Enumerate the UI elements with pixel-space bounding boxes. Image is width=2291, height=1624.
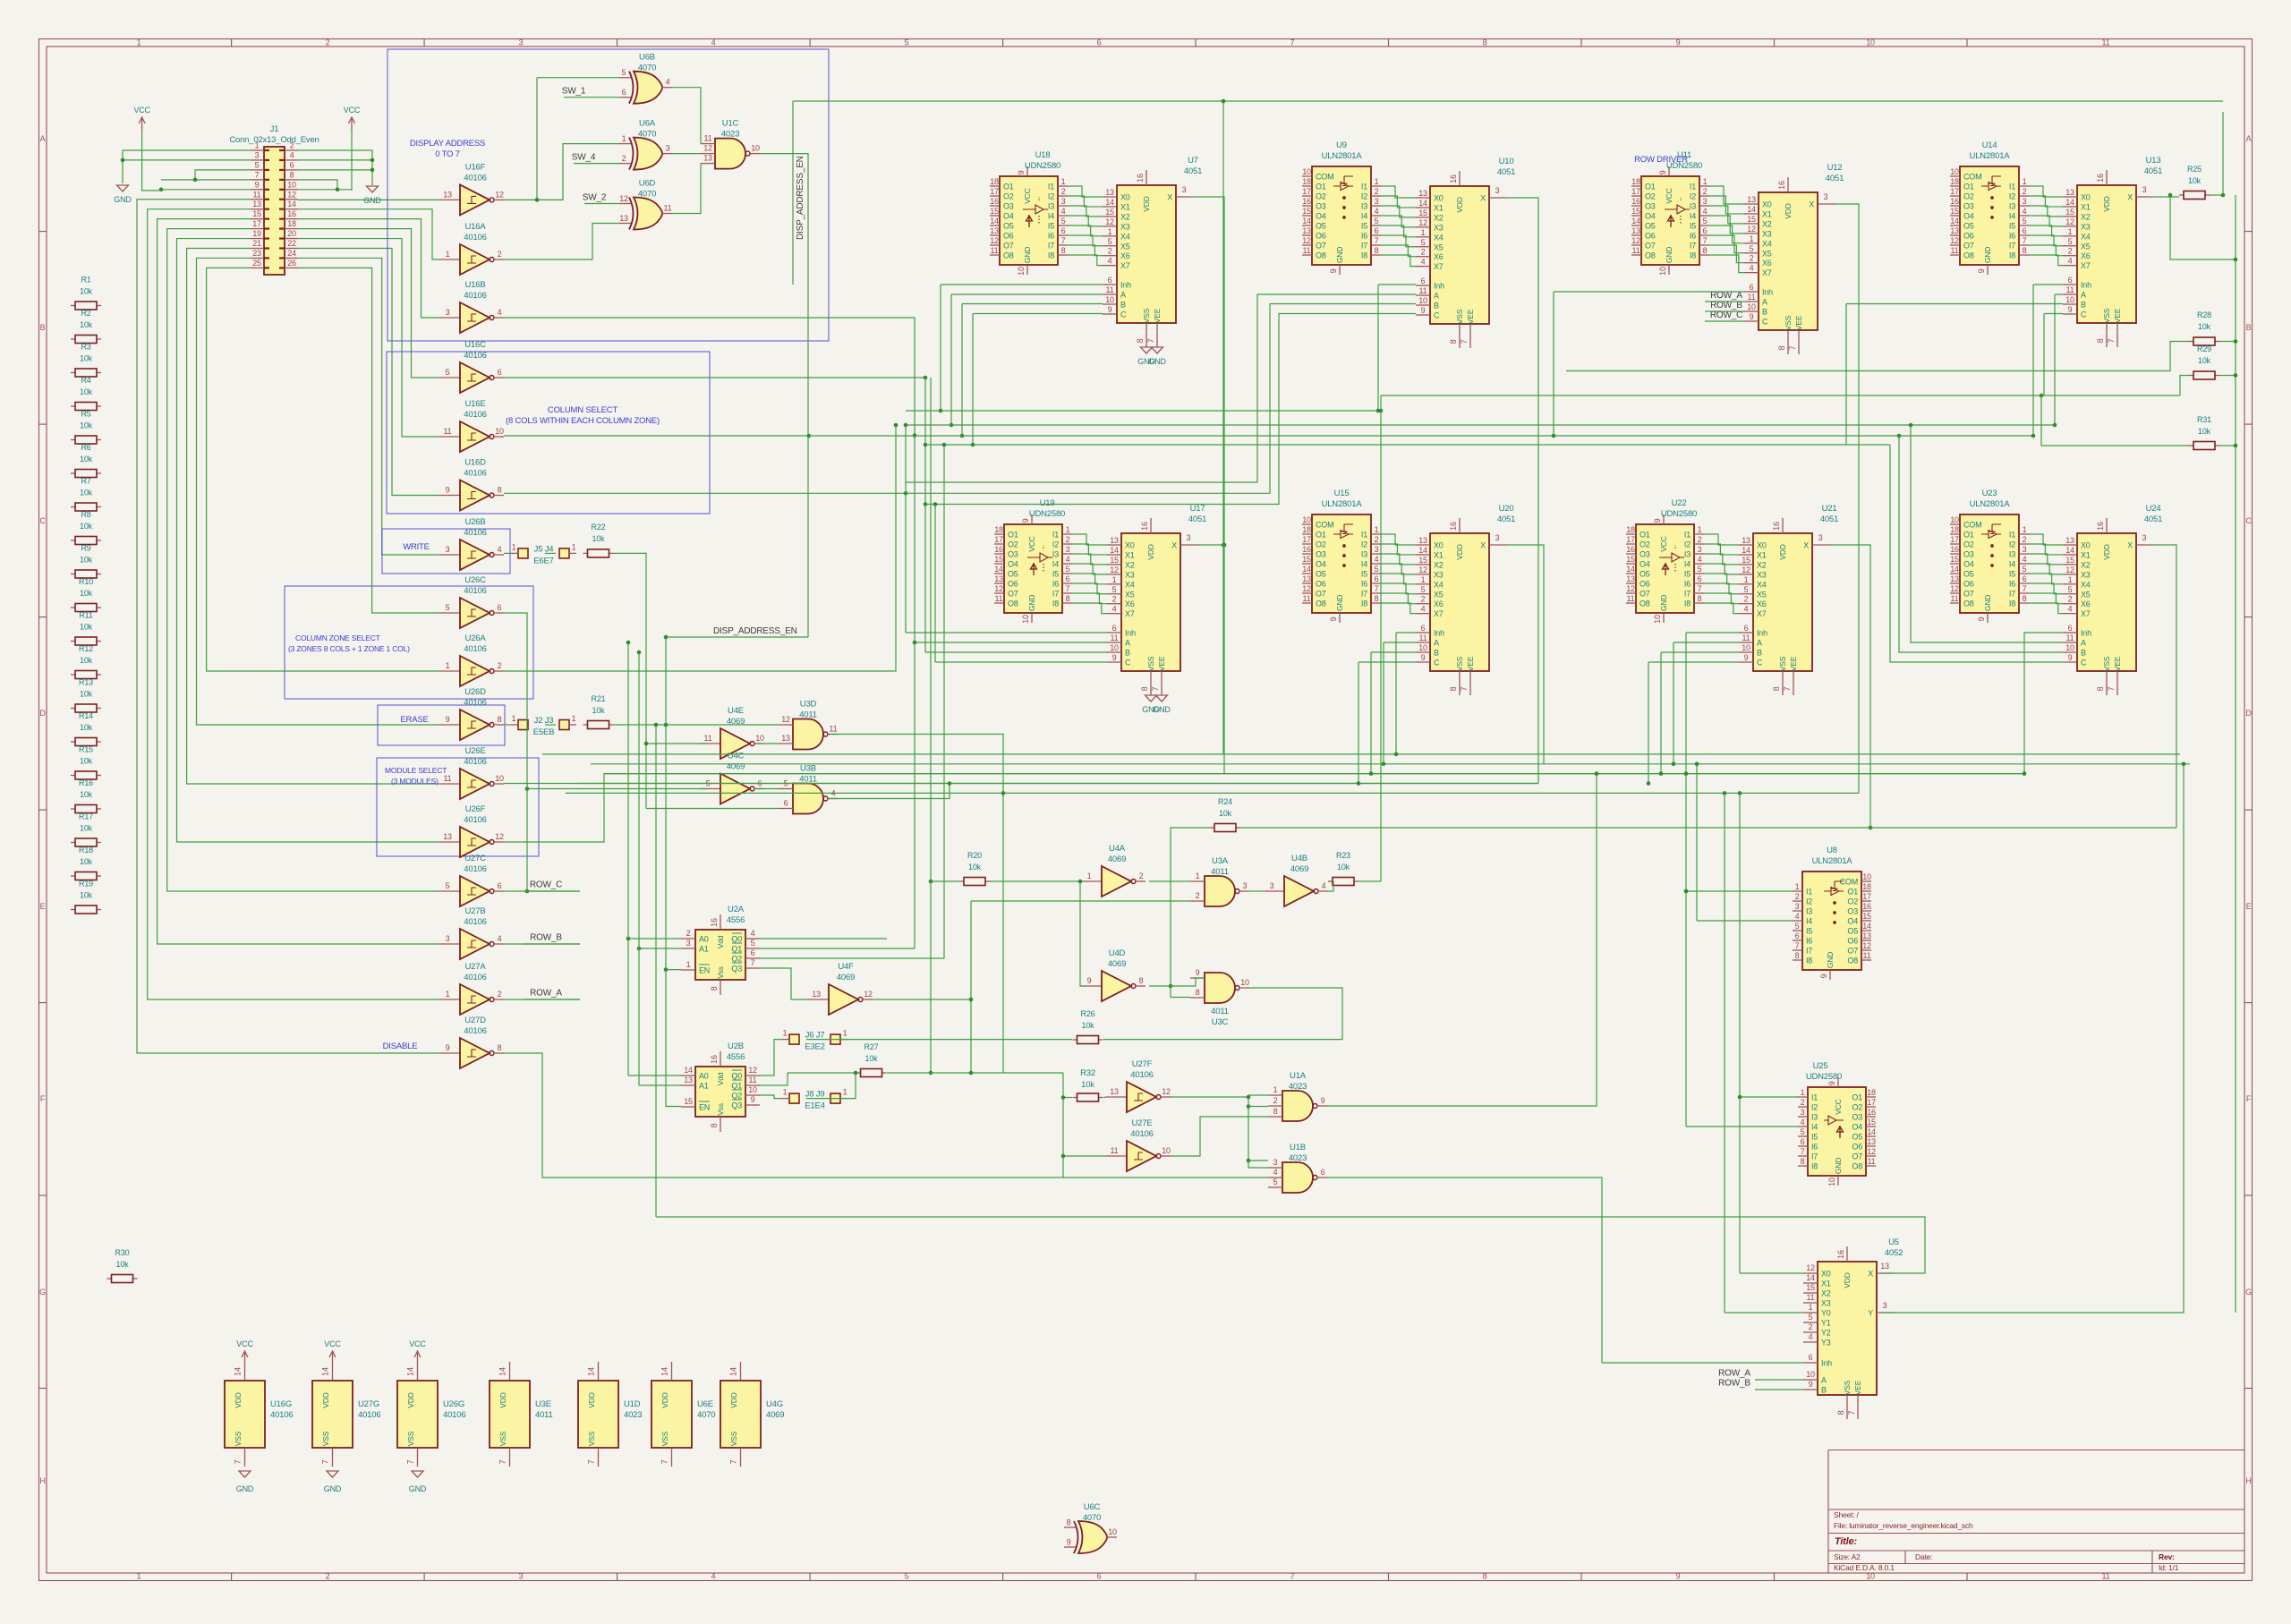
svg-text:X: X bbox=[1167, 193, 1172, 202]
svg-text:1: 1 bbox=[1108, 227, 1112, 236]
svg-text:X2: X2 bbox=[2081, 212, 2091, 221]
svg-text:ROW_B: ROW_B bbox=[1710, 301, 1742, 310]
wire zigzag bbox=[1704, 564, 1739, 574]
J1 pin 18 bbox=[279, 219, 298, 229]
svg-text:10: 10 bbox=[1866, 38, 1875, 47]
svg-text:O2: O2 bbox=[1316, 192, 1326, 201]
svg-text:X3: X3 bbox=[1821, 1299, 1831, 1308]
svg-text:9: 9 bbox=[1021, 518, 1030, 523]
svg-text:8: 8 bbox=[498, 486, 502, 495]
svg-text:O5: O5 bbox=[1003, 222, 1014, 231]
svg-text:DISPLAY ADDRESS: DISPLAY ADDRESS bbox=[410, 139, 485, 149]
svg-text:VDD: VDD bbox=[1843, 1272, 1852, 1288]
svg-text:10k: 10k bbox=[80, 489, 93, 497]
svg-text:U1B: U1B bbox=[1290, 1143, 1306, 1152]
wire pin8 jog right bbox=[298, 180, 337, 190]
wire zigzag bbox=[1381, 235, 1416, 247]
svg-text:10: 10 bbox=[1950, 515, 1959, 524]
svg-text:13: 13 bbox=[2065, 188, 2074, 197]
J1 pin 19 bbox=[251, 229, 269, 239]
svg-text:18: 18 bbox=[1950, 177, 1959, 186]
svg-text:4: 4 bbox=[498, 934, 502, 943]
wire v1560 bbox=[1395, 633, 1397, 754]
svg-text:11: 11 bbox=[1303, 246, 1311, 255]
svg-text:X2: X2 bbox=[1757, 560, 1767, 569]
svg-text:X0: X0 bbox=[1125, 541, 1135, 550]
svg-text:13: 13 bbox=[1867, 1137, 1876, 1146]
svg-text:O5: O5 bbox=[1316, 222, 1326, 231]
svg-text:5: 5 bbox=[1273, 1178, 1278, 1186]
power unit U27G bbox=[312, 1339, 380, 1493]
svg-text:10k: 10k bbox=[1082, 1021, 1095, 1030]
svg-text:8: 8 bbox=[1795, 951, 1800, 960]
svg-text:C: C bbox=[1762, 318, 1768, 327]
svg-text:8: 8 bbox=[1483, 38, 1487, 47]
svg-text:11: 11 bbox=[1748, 293, 1756, 302]
svg-text:12: 12 bbox=[1867, 1147, 1876, 1156]
svg-text:R19: R19 bbox=[79, 880, 93, 889]
power unit U16G bbox=[225, 1339, 293, 1493]
wire v2296 bbox=[2054, 294, 2056, 425]
svg-text:6: 6 bbox=[1108, 276, 1112, 285]
multiplexer U10 4051 bbox=[1416, 157, 1515, 348]
svg-text:O5: O5 bbox=[1963, 570, 1974, 579]
inverter U16B bbox=[439, 280, 504, 333]
junction bbox=[929, 1071, 933, 1076]
junction bbox=[2053, 423, 2057, 428]
svg-text:U19: U19 bbox=[1040, 498, 1055, 508]
svg-text:11: 11 bbox=[1951, 246, 1959, 255]
svg-text:6: 6 bbox=[751, 948, 755, 957]
wire J1 pin 21 bus bbox=[187, 249, 439, 785]
svg-text:ROW_C: ROW_C bbox=[530, 880, 562, 890]
svg-text:1: 1 bbox=[1112, 575, 1117, 584]
junction bbox=[2182, 762, 2186, 767]
J1 pin 22 bbox=[279, 239, 298, 249]
svg-text:10: 10 bbox=[1658, 267, 1667, 276]
wire U1A.2 bbox=[1248, 1106, 1268, 1108]
svg-text:10k: 10k bbox=[2188, 176, 2202, 185]
svg-text:VSS: VSS bbox=[1455, 656, 1464, 671]
svg-text:8: 8 bbox=[290, 170, 294, 179]
svg-text:1: 1 bbox=[686, 960, 691, 969]
svg-text:Title:: Title: bbox=[1835, 1536, 1857, 1547]
wire zigzag bbox=[1068, 235, 1103, 246]
svg-text:1: 1 bbox=[512, 714, 516, 723]
wire v1540 bbox=[1377, 285, 1379, 411]
wire zigzag bbox=[1068, 186, 1103, 197]
svg-text:Q0: Q0 bbox=[731, 1072, 742, 1081]
wire zigzag bbox=[1068, 245, 1103, 256]
svg-text:J6 J7: J6 J7 bbox=[805, 1031, 825, 1041]
svg-text:4051: 4051 bbox=[2144, 514, 2162, 524]
wire zigzag bbox=[1381, 186, 1416, 198]
wire U12 ctl Inh bbox=[1554, 291, 1744, 293]
svg-text:O5: O5 bbox=[1847, 927, 1858, 936]
annotation box MODULE SELECT bbox=[377, 758, 539, 856]
svg-text:O5: O5 bbox=[1639, 570, 1650, 579]
svg-text:4069: 4069 bbox=[766, 1410, 784, 1420]
svg-text:SW_4: SW_4 bbox=[572, 153, 596, 163]
svg-text:VSS: VSS bbox=[1778, 656, 1787, 671]
svg-text:13: 13 bbox=[990, 226, 999, 235]
svg-text:7: 7 bbox=[587, 1459, 596, 1464]
J1 pin 3 bbox=[251, 150, 269, 160]
svg-text:U24: U24 bbox=[2146, 504, 2161, 514]
svg-text:O7: O7 bbox=[1963, 590, 1974, 599]
svg-text:5: 5 bbox=[446, 368, 450, 377]
svg-text:E: E bbox=[2246, 902, 2252, 911]
svg-text:8: 8 bbox=[1772, 686, 1781, 691]
svg-text:4: 4 bbox=[2023, 555, 2027, 564]
power VCC bbox=[139, 117, 145, 131]
svg-text:U3E: U3E bbox=[535, 1399, 551, 1409]
svg-text:2: 2 bbox=[1744, 595, 1749, 604]
svg-text:X4: X4 bbox=[1120, 232, 1130, 241]
svg-text:VDD: VDD bbox=[1778, 544, 1787, 559]
wire zigzag bbox=[1072, 544, 1107, 555]
svg-text:16: 16 bbox=[1302, 545, 1311, 554]
svg-text:2: 2 bbox=[1698, 535, 1702, 544]
svg-text:1: 1 bbox=[843, 1088, 847, 1097]
wire v1063 bbox=[950, 294, 952, 425]
junction bbox=[933, 502, 938, 506]
wire U12 ctl B bbox=[1705, 310, 1744, 312]
wire v1736 bbox=[1553, 292, 1554, 436]
svg-text:40106: 40106 bbox=[270, 1410, 293, 1420]
svg-text:17: 17 bbox=[1626, 535, 1635, 544]
svg-text:11: 11 bbox=[253, 190, 261, 199]
power GND bbox=[367, 186, 379, 192]
svg-text:4: 4 bbox=[498, 308, 502, 317]
svg-text:Inh: Inh bbox=[1434, 282, 1444, 291]
svg-text:8: 8 bbox=[1449, 339, 1458, 344]
svg-text:15: 15 bbox=[252, 209, 261, 218]
resistor R11 bbox=[71, 611, 101, 646]
svg-text:14: 14 bbox=[1302, 217, 1311, 225]
svg-text:15: 15 bbox=[1418, 556, 1427, 565]
svg-text:O1: O1 bbox=[1008, 531, 1018, 540]
svg-text:21: 21 bbox=[252, 239, 261, 248]
svg-text:X6: X6 bbox=[1762, 259, 1772, 268]
wire U2A Q0 bbox=[760, 938, 887, 940]
svg-text:F: F bbox=[40, 1094, 46, 1103]
inverter U4B bbox=[1263, 854, 1328, 906]
svg-text:3: 3 bbox=[1495, 186, 1500, 195]
svg-text:O1: O1 bbox=[1003, 183, 1014, 191]
svg-text:16: 16 bbox=[1950, 545, 1959, 554]
svg-text:I4: I4 bbox=[1811, 1123, 1818, 1132]
svg-text:1: 1 bbox=[1809, 1303, 1813, 1312]
svg-text:8: 8 bbox=[2096, 686, 2105, 691]
svg-text:VDD: VDD bbox=[1455, 197, 1464, 212]
svg-text:O3: O3 bbox=[1316, 550, 1326, 559]
wire U16D out bbox=[504, 304, 1270, 494]
svg-text:10: 10 bbox=[1302, 515, 1311, 524]
resistor R28 bbox=[2189, 310, 2219, 345]
svg-text:2: 2 bbox=[1066, 535, 1070, 544]
junction bbox=[913, 641, 917, 645]
junction bbox=[2031, 434, 2036, 438]
svg-text:O1: O1 bbox=[1645, 183, 1656, 191]
inverter U16D bbox=[439, 458, 504, 511]
wire ROW_A wire U5 bbox=[1755, 1379, 1803, 1381]
inverter U26B bbox=[439, 517, 504, 570]
wire U1B.3 from v1395 bbox=[1248, 1161, 1268, 1168]
svg-text:O2: O2 bbox=[1963, 192, 1974, 201]
wire J1 pin 24 bus bbox=[298, 258, 439, 555]
wire U13 ctl B bbox=[1846, 303, 2063, 305]
svg-text:O4: O4 bbox=[1008, 560, 1018, 569]
svg-text:R11: R11 bbox=[79, 611, 92, 620]
wire J1 pin 18 bus bbox=[298, 229, 439, 378]
svg-text:4: 4 bbox=[1801, 1118, 1805, 1127]
svg-text:I3: I3 bbox=[1361, 202, 1367, 211]
svg-text:1: 1 bbox=[1066, 525, 1070, 534]
wire J1 pin 16 bus bbox=[298, 219, 439, 318]
svg-text:5: 5 bbox=[1809, 1313, 1813, 1322]
svg-text:4: 4 bbox=[2023, 207, 2027, 216]
junction bbox=[1647, 781, 1651, 786]
svg-text:C: C bbox=[2081, 659, 2087, 667]
resistor R3 bbox=[71, 343, 101, 378]
svg-text:2: 2 bbox=[498, 250, 502, 259]
svg-text:3: 3 bbox=[1818, 533, 1823, 542]
wire zigzag bbox=[1072, 583, 1107, 594]
svg-text:O1: O1 bbox=[1847, 888, 1858, 897]
svg-text:4051: 4051 bbox=[1497, 167, 1515, 177]
svg-text:X7: X7 bbox=[1120, 261, 1130, 270]
svg-text:VSS: VSS bbox=[1142, 308, 1151, 323]
resistor R15 bbox=[71, 745, 101, 780]
junction bbox=[637, 650, 642, 655]
svg-text:X1: X1 bbox=[1434, 203, 1444, 212]
svg-text:2: 2 bbox=[290, 141, 294, 150]
svg-text:20: 20 bbox=[287, 229, 296, 238]
wire U25.I1 feeder bbox=[1740, 1096, 1798, 1098]
wire U24 ctl B bbox=[1899, 436, 2063, 652]
svg-text:O7: O7 bbox=[1008, 590, 1018, 599]
wire U20.X out bbox=[1507, 545, 1544, 764]
svg-text:11: 11 bbox=[1951, 594, 1959, 603]
svg-text:UDN2580: UDN2580 bbox=[1025, 161, 1060, 171]
svg-text:COM: COM bbox=[1963, 521, 1981, 530]
wire R32 to U27F bbox=[1103, 1097, 1105, 1099]
wire J4 to R22 bbox=[545, 552, 556, 554]
junction bbox=[894, 423, 899, 428]
svg-text:13: 13 bbox=[619, 214, 628, 223]
svg-text:(3 MODULES): (3 MODULES) bbox=[391, 777, 439, 786]
svg-text:ULN2801A: ULN2801A bbox=[1812, 856, 1853, 866]
svg-text:O3: O3 bbox=[1847, 907, 1858, 916]
svg-text:17: 17 bbox=[1631, 187, 1640, 196]
svg-text:6: 6 bbox=[784, 799, 788, 808]
svg-text:9: 9 bbox=[1977, 616, 1986, 621]
wire v1034 bbox=[924, 378, 926, 652]
svg-text:A0: A0 bbox=[699, 1072, 709, 1081]
svg-text:9: 9 bbox=[1750, 312, 1754, 321]
junction bbox=[1595, 771, 1599, 776]
svg-text:8: 8 bbox=[2023, 594, 2027, 603]
svg-text:VEE: VEE bbox=[1153, 308, 1162, 323]
wire zigzag bbox=[1072, 564, 1107, 574]
svg-text:1: 1 bbox=[572, 542, 576, 551]
wire top distribution h113 bbox=[793, 100, 2223, 102]
svg-text:10: 10 bbox=[1827, 1178, 1836, 1186]
svg-text:U27B: U27B bbox=[465, 906, 486, 916]
svg-text:2: 2 bbox=[2068, 595, 2073, 604]
svg-text:Y2: Y2 bbox=[1821, 1329, 1831, 1338]
svg-text:3: 3 bbox=[666, 144, 670, 153]
svg-text:10: 10 bbox=[1950, 167, 1959, 176]
svg-text:8: 8 bbox=[1140, 686, 1149, 691]
svg-text:R13: R13 bbox=[79, 678, 93, 687]
svg-text:11: 11 bbox=[995, 594, 1003, 603]
svg-text:2: 2 bbox=[1273, 1096, 1278, 1105]
svg-text:H: H bbox=[39, 1476, 45, 1485]
junction bbox=[854, 1071, 858, 1076]
svg-text:O6: O6 bbox=[1963, 580, 1974, 589]
svg-text:VDD: VDD bbox=[2102, 544, 2111, 559]
svg-text:3: 3 bbox=[519, 1572, 524, 1581]
svg-text:8: 8 bbox=[1196, 988, 1200, 997]
svg-text:U10: U10 bbox=[1499, 157, 1514, 166]
wire U5.Y out bbox=[1882, 764, 2184, 1313]
svg-text:13: 13 bbox=[1950, 574, 1959, 583]
svg-text:X6: X6 bbox=[1757, 599, 1767, 608]
wire bus h497 bbox=[925, 444, 1890, 446]
svg-text:40106: 40106 bbox=[464, 351, 486, 361]
J1 pin 13 bbox=[251, 200, 269, 209]
svg-text:ROW_B: ROW_B bbox=[530, 933, 562, 943]
svg-text:X5: X5 bbox=[1434, 590, 1444, 599]
wire v1188 bbox=[1062, 1073, 1064, 1178]
wire U2A Q3 bbox=[760, 968, 791, 999]
svg-text:8: 8 bbox=[710, 986, 719, 991]
bus row2 B bbox=[925, 651, 1107, 653]
svg-text:U26A: U26A bbox=[465, 633, 487, 643]
wire v1927 bbox=[1724, 793, 1725, 1313]
svg-text:X5: X5 bbox=[1120, 242, 1130, 251]
junction bbox=[1684, 889, 1689, 894]
svg-text:I4: I4 bbox=[1806, 917, 1812, 926]
jumper J2 J3 bbox=[511, 714, 576, 737]
svg-text:Inh: Inh bbox=[1125, 629, 1136, 638]
svg-text:17: 17 bbox=[990, 187, 999, 196]
bus h864.6 bbox=[604, 773, 2024, 775]
wire U6A out to U1C.12 bbox=[672, 153, 701, 155]
svg-text:E: E bbox=[40, 902, 46, 911]
wire v702 bbox=[627, 642, 629, 1076]
svg-text:X4: X4 bbox=[2081, 232, 2091, 241]
inverter U27F bbox=[1105, 1059, 1171, 1112]
svg-text:I7: I7 bbox=[1052, 590, 1059, 599]
svg-text:A: A bbox=[1125, 639, 1130, 648]
svg-text:11: 11 bbox=[704, 134, 712, 143]
junction bbox=[1222, 543, 1227, 548]
junction bbox=[1222, 99, 1226, 104]
svg-text:Rev:: Rev: bbox=[2159, 1552, 2175, 1561]
svg-text:I8: I8 bbox=[2009, 251, 2015, 260]
svg-text:O7: O7 bbox=[1316, 242, 1326, 251]
wire J1 pin 11 bus bbox=[137, 200, 439, 1053]
wire U3D out bbox=[828, 735, 1003, 1074]
svg-text:7: 7 bbox=[1698, 584, 1702, 593]
wire zigzag bbox=[1381, 583, 1416, 594]
svg-text:6: 6 bbox=[1703, 226, 1708, 235]
wire R26 right bbox=[1103, 1039, 1342, 1041]
svg-text:1: 1 bbox=[1061, 177, 1066, 186]
inverter U16E bbox=[439, 399, 504, 452]
wire J1 pin 25 bus bbox=[207, 268, 439, 671]
svg-text:9: 9 bbox=[2068, 305, 2073, 314]
wire zigzag bbox=[1381, 593, 1416, 604]
J1 pin 4 bbox=[279, 150, 298, 160]
svg-text:4: 4 bbox=[1322, 881, 1326, 890]
svg-text:10: 10 bbox=[1017, 267, 1026, 276]
wire zigzag bbox=[1704, 534, 1739, 545]
multiplexer U20 4051 bbox=[1416, 504, 1515, 695]
svg-text:B: B bbox=[1434, 302, 1439, 310]
svg-text:16: 16 bbox=[990, 197, 999, 206]
J1 pin 1 bbox=[251, 141, 269, 151]
svg-text:16: 16 bbox=[1631, 197, 1640, 206]
svg-text:10: 10 bbox=[751, 144, 760, 153]
wire pin3 left bbox=[123, 159, 251, 161]
svg-text:VDD: VDD bbox=[498, 1392, 507, 1407]
resistor R20 bbox=[959, 851, 990, 886]
svg-text:U27D: U27D bbox=[464, 1016, 486, 1025]
svg-text:U13: U13 bbox=[2146, 156, 2161, 166]
wire U4B out to R23 bbox=[1328, 881, 1333, 891]
svg-text:R29: R29 bbox=[2197, 344, 2211, 353]
svg-text:U21: U21 bbox=[1822, 504, 1837, 514]
svg-text:VSS: VSS bbox=[234, 1431, 243, 1446]
svg-text:I3: I3 bbox=[1811, 1113, 1818, 1122]
svg-text:R5: R5 bbox=[81, 410, 90, 419]
svg-text:5: 5 bbox=[1421, 585, 1426, 594]
svg-text:8: 8 bbox=[1136, 338, 1145, 343]
svg-text:ERASE: ERASE bbox=[400, 715, 428, 725]
svg-text:11: 11 bbox=[1807, 1293, 1815, 1302]
svg-text:X3: X3 bbox=[1762, 229, 1772, 238]
svg-text:1: 1 bbox=[1421, 228, 1426, 237]
svg-text:9: 9 bbox=[1421, 653, 1426, 662]
svg-text:8: 8 bbox=[1375, 246, 1379, 255]
wire U12 ctl A bbox=[1705, 301, 1744, 302]
wire R31 right bbox=[2219, 445, 2236, 446]
svg-text:I6: I6 bbox=[1690, 232, 1696, 241]
svg-text:3: 3 bbox=[1801, 1108, 1805, 1117]
svg-text:13: 13 bbox=[1862, 931, 1871, 940]
svg-text:3: 3 bbox=[446, 934, 450, 943]
svg-text:I7: I7 bbox=[1811, 1152, 1818, 1161]
svg-text:I6: I6 bbox=[2009, 580, 2015, 589]
svg-text:X3: X3 bbox=[1434, 223, 1444, 232]
svg-text:18: 18 bbox=[1950, 525, 1959, 534]
svg-text:7: 7 bbox=[1151, 686, 1160, 691]
svg-text:18: 18 bbox=[1302, 525, 1311, 534]
wire zigzag bbox=[1381, 554, 1416, 565]
svg-text:KiCad E.D.A. 8.0.1: KiCad E.D.A. 8.0.1 bbox=[1834, 1563, 1895, 1572]
svg-text:ROW DRIVER: ROW DRIVER bbox=[1634, 155, 1688, 165]
junction bbox=[1169, 984, 1173, 989]
svg-text:I3: I3 bbox=[1684, 550, 1691, 559]
svg-text:2: 2 bbox=[1421, 595, 1426, 604]
junction bbox=[807, 434, 812, 438]
svg-text:5: 5 bbox=[1703, 217, 1708, 225]
svg-text:R7: R7 bbox=[81, 477, 90, 486]
